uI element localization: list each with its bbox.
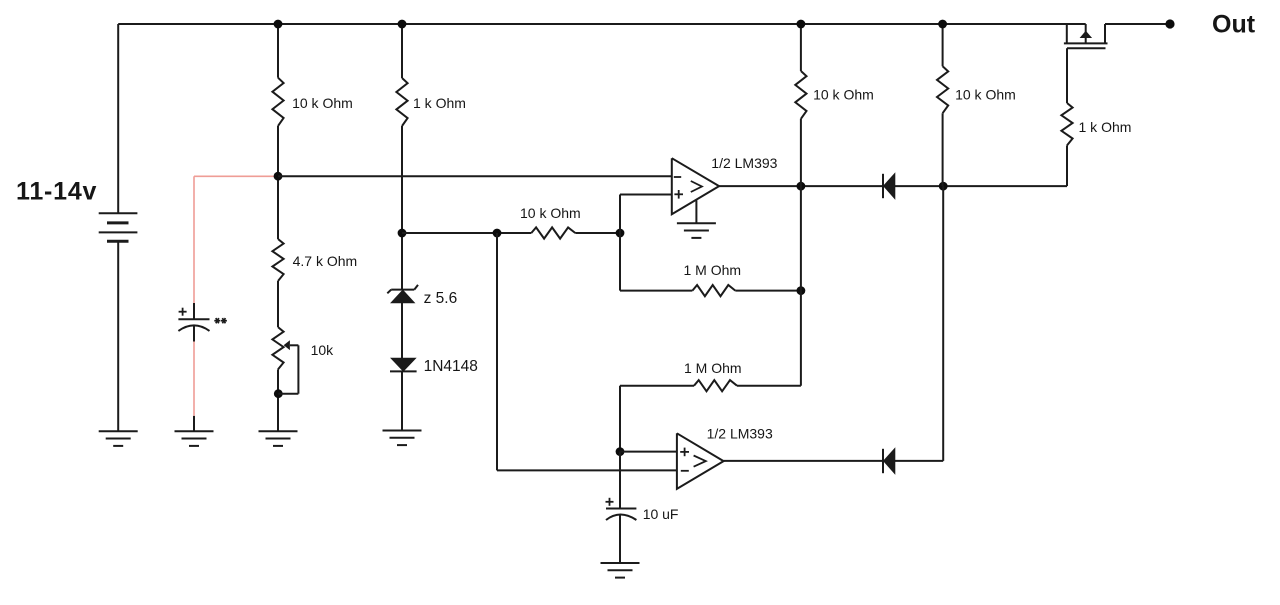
svg-text:z 5.6: z 5.6	[424, 290, 458, 307]
svg-text:1N4148: 1N4148	[424, 358, 478, 375]
svg-text:10 uF: 10 uF	[643, 506, 679, 522]
svg-text:11-14v: 11-14v	[16, 177, 97, 205]
svg-text:1 k Ohm: 1 k Ohm	[413, 95, 466, 111]
svg-text:1/2 LM393: 1/2 LM393	[711, 155, 777, 171]
svg-text:1 k Ohm: 1 k Ohm	[1079, 119, 1132, 135]
svg-text:1 M Ohm: 1 M Ohm	[684, 262, 742, 278]
svg-text:10 k Ohm: 10 k Ohm	[520, 205, 581, 221]
svg-text:10 k Ohm: 10 k Ohm	[955, 86, 1016, 102]
svg-text:4.7 k Ohm: 4.7 k Ohm	[293, 253, 358, 269]
svg-text:10 k Ohm: 10 k Ohm	[813, 86, 874, 102]
svg-text:10 k Ohm: 10 k Ohm	[292, 95, 353, 111]
svg-text:10k: 10k	[311, 342, 335, 358]
svg-text:1/2 LM393: 1/2 LM393	[707, 426, 773, 442]
svg-text:Out: Out	[1212, 11, 1256, 39]
svg-text:1 M Ohm: 1 M Ohm	[684, 360, 742, 376]
